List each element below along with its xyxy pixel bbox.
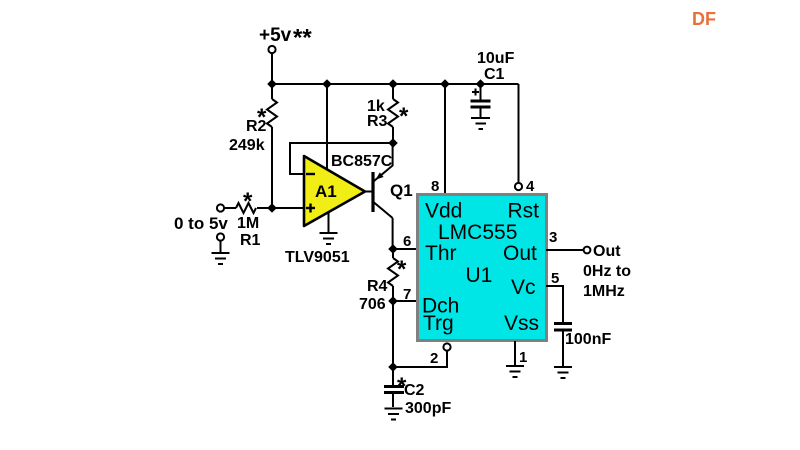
svg-text:3: 3: [549, 229, 557, 246]
svg-text:4: 4: [526, 178, 535, 195]
wire R1 to node: [257, 207, 304, 209]
node rail-R2: [267, 79, 277, 89]
wire pin1 Vss: [514, 341, 516, 365]
wire supply terminal to rail: [271, 53, 273, 84]
ground C1: [471, 118, 490, 129]
svg-text:1M: 1M: [237, 215, 259, 232]
svg-text:+5v: +5v: [259, 25, 292, 46]
svg-text:C1: C1: [484, 66, 505, 83]
node rail-opamp supply: [322, 79, 332, 89]
svg-text:R3: R3: [367, 113, 388, 130]
+5v supply terminal: [259, 25, 312, 54]
svg-text:706: 706: [359, 296, 386, 313]
svg-text:C2: C2: [404, 382, 425, 399]
svg-text:Rst: Rst: [508, 200, 540, 223]
svg-text:8: 8: [431, 178, 439, 195]
svg-text:**: **: [293, 25, 312, 52]
wire +5v rail: [272, 83, 519, 85]
wire pin5 Vc: [546, 286, 563, 322]
svg-text:300pF: 300pF: [405, 400, 451, 417]
op-amp A1: [304, 156, 365, 226]
ground pin1: [506, 366, 524, 377]
svg-text:*: *: [399, 103, 409, 130]
svg-text:2: 2: [430, 350, 438, 367]
svg-text:R1: R1: [240, 232, 261, 249]
node C2-trg: [388, 362, 398, 372]
svg-text:6: 6: [403, 233, 411, 250]
svg-text:A1: A1: [315, 182, 337, 201]
svg-text:Out: Out: [503, 242, 537, 265]
capacitor C1: [471, 84, 491, 117]
svg-text:100nF: 100nF: [565, 331, 611, 348]
svg-text:*: *: [397, 256, 407, 283]
svg-text:7: 7: [403, 286, 411, 303]
wire pin3 Out: [546, 249, 584, 251]
svg-text:Thr: Thr: [425, 242, 457, 265]
ground 100nF: [554, 367, 572, 378]
svg-text:LMC555: LMC555: [438, 221, 517, 244]
ground C2: [385, 409, 403, 420]
wire feedback minus input: [290, 143, 393, 174]
svg-text:TLV9051: TLV9051: [285, 249, 350, 266]
pin2 bubble: [443, 343, 450, 350]
wire pin8 Vdd: [444, 84, 446, 193]
ground op-amp: [320, 213, 338, 244]
svg-text:Vc: Vc: [511, 276, 536, 299]
wire pin6 Thr: [393, 248, 416, 250]
wire trg from C2 node: [393, 351, 447, 368]
transistor Q1: [364, 143, 393, 249]
node R4-dch: [388, 296, 398, 306]
input terminal 0 to 5v: [174, 204, 228, 233]
svg-text:Vdd: Vdd: [425, 200, 462, 223]
capacitor C2: [384, 367, 404, 407]
resistor R2: [267, 84, 277, 208]
wire dch node down to C2 node: [392, 301, 394, 367]
resistor R3: [388, 84, 398, 143]
node emitter-R3-feedback: [388, 138, 398, 148]
wire pin4 Rst: [518, 84, 520, 183]
svg-text:U1: U1: [466, 264, 493, 287]
node rail-R3: [388, 79, 398, 89]
svg-text:10uF: 10uF: [477, 50, 515, 67]
wire input to R1: [224, 207, 236, 209]
svg-text:1MHz: 1MHz: [583, 283, 625, 300]
node R1-R2-opamp: [267, 203, 277, 213]
node collector-thr-R4: [388, 244, 398, 254]
input ground terminal: [217, 233, 224, 240]
ground input: [212, 241, 230, 265]
svg-text:249k: 249k: [229, 137, 265, 154]
pin4 bubble: [515, 183, 522, 190]
capacitor 100nF: [554, 324, 572, 367]
wire opamp V+ supply: [326, 84, 328, 170]
node rail-C1: [476, 79, 486, 89]
node rail-pin8: [440, 79, 450, 89]
svg-text:Out: Out: [593, 243, 621, 260]
svg-text:0Hz to: 0Hz to: [583, 263, 631, 280]
svg-text:0 to 5v: 0 to 5v: [174, 214, 228, 233]
output terminal: [584, 247, 591, 254]
svg-text:5: 5: [551, 270, 559, 287]
svg-text:R4: R4: [367, 278, 388, 295]
svg-text:Q1: Q1: [390, 181, 413, 200]
IC U1 LMC555: [418, 195, 547, 341]
resistor R4: [388, 249, 398, 301]
svg-text:1: 1: [519, 349, 527, 366]
wire pin7 Dch: [393, 300, 416, 302]
svg-text:DF: DF: [692, 9, 716, 29]
resistor R1: [236, 203, 256, 213]
svg-text:*: *: [243, 188, 253, 215]
svg-text:Trg: Trg: [423, 312, 454, 335]
svg-text:Vss: Vss: [504, 312, 539, 335]
svg-text:BC857C: BC857C: [331, 153, 393, 170]
svg-text:R2: R2: [246, 118, 267, 135]
